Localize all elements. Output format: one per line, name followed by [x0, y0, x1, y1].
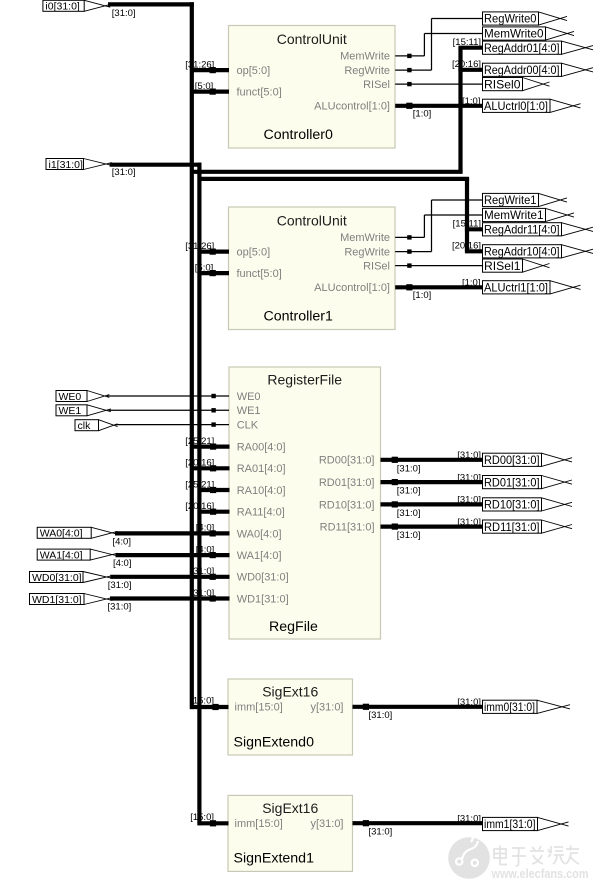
- svg-text:ALUcontrol[1:0]: ALUcontrol[1:0]: [314, 101, 390, 113]
- net label [31:0] WD1 at tag: [108, 602, 132, 613]
- svg-text:WD1[31:0]: WD1[31:0]: [237, 593, 289, 605]
- net label [4:0] WA0 at tag: [113, 536, 132, 547]
- output port ALUctrl1[1:0]: [483, 281, 581, 295]
- svg-text:ControlUnit: ControlUnit: [277, 213, 347, 229]
- svg-text:RegAddr10[4:0]: RegAddr10[4:0]: [484, 246, 560, 259]
- svg-text:SigExt16: SigExt16: [262, 800, 318, 816]
- output port RD01[31:0]: [483, 476, 573, 490]
- svg-text:RD11[31:0]: RD11[31:0]: [320, 522, 375, 534]
- svg-text:RISel0: RISel0: [484, 78, 521, 91]
- svg-text:imm[15:0]: imm[15:0]: [235, 818, 283, 830]
- net label [31:0] RD01 near tag: [457, 472, 481, 483]
- wire busA vertical: [458, 48, 462, 172]
- wire WE0 net: [107, 394, 229, 398]
- svg-text:MemWrite: MemWrite: [340, 232, 390, 244]
- svg-text:RISel: RISel: [363, 79, 390, 91]
- wire SignExtend1 imm tap from bus2: [198, 820, 229, 826]
- wire op tap Controller0 + junction: [190, 67, 229, 73]
- svg-text:CLK: CLK: [237, 420, 259, 432]
- svg-text:RegFile: RegFile: [269, 619, 318, 635]
- wire bus1 i0 vertical trunk: [190, 2, 194, 709]
- output port RegAddr01[4:0]: [483, 41, 594, 55]
- output port RD10[31:0]: [483, 498, 573, 512]
- output port RegWrite1: [483, 193, 568, 207]
- net label [5:0] funct tap Controller0: [195, 81, 214, 92]
- wire busB link from bus2: [198, 177, 470, 181]
- output port RegAddr00[4:0]: [483, 63, 594, 77]
- net label [31:0] RD00 near pin: [397, 463, 421, 474]
- svg-text:RegAddr01[4:0]: RegAddr01[4:0]: [484, 42, 560, 55]
- component U4 SigExt16 instance SignExtend0: [228, 679, 353, 755]
- svg-text:funct[5:0]: funct[5:0]: [237, 268, 282, 280]
- wire RegAddr00 tap: [458, 68, 482, 72]
- net label [31:0] at i1: [112, 167, 136, 178]
- wire SignExtend0 imm tap from bus1: [190, 704, 229, 710]
- input port WA1[4:0]: [37, 549, 118, 561]
- net label [15:0] SignExtend1 input: [190, 812, 214, 823]
- svg-text:RegWrite1: RegWrite1: [484, 194, 537, 207]
- input port WD1[31:0]: [30, 594, 113, 606]
- net label [31:0] WD0 at tag: [108, 580, 132, 591]
- svg-text:op[5:0]: op[5:0]: [237, 247, 271, 259]
- svg-text:RD10[31:0]: RD10[31:0]: [319, 499, 375, 511]
- svg-text:[31:0]: [31:0]: [369, 710, 393, 721]
- svg-text:[31:0]: [31:0]: [112, 8, 136, 19]
- input port WE1: [56, 405, 111, 417]
- svg-text:WD1[31:0]: WD1[31:0]: [32, 594, 82, 606]
- svg-text:ALUctrl1[1:0]: ALUctrl1[1:0]: [484, 282, 548, 295]
- svg-text:[31:0]: [31:0]: [397, 508, 421, 519]
- wire RegAddr11 tap: [465, 227, 483, 231]
- svg-text:RD00[31:0]: RD00[31:0]: [484, 454, 540, 467]
- decorative watermark (not labelled further): [448, 835, 588, 881]
- pin labels RegFile: [237, 391, 375, 606]
- svg-text:RA00[4:0]: RA00[4:0]: [237, 442, 286, 454]
- net label [31:0] RD00 near tag: [457, 450, 481, 461]
- svg-text:[31:0]: [31:0]: [397, 486, 421, 497]
- net label [31:0] WD0 at pin: [191, 566, 215, 577]
- net label [4:0] WA1 at tag: [113, 558, 132, 569]
- net label [31:0] imm1 near pin: [369, 826, 393, 837]
- wire RISel1 net: [395, 263, 482, 267]
- output port RegAddr11[4:0]: [483, 223, 594, 237]
- wire busA link from bus1: [190, 170, 463, 174]
- net label [1:0] ALUctrl0 near pin: [413, 109, 432, 120]
- wire op tap Controller1 + junction: [198, 249, 230, 255]
- wire funct tap Controller1 + junction: [198, 270, 230, 276]
- svg-text:MemWrite1: MemWrite1: [484, 209, 544, 222]
- svg-text:RA01[4:0]: RA01[4:0]: [237, 463, 286, 475]
- wire i0 bus horizontal from i0 tag: [108, 2, 194, 6]
- input port WD0[31:0]: [30, 572, 113, 584]
- net label [25:21] RA10 tap: [185, 479, 214, 490]
- svg-text:clk: clk: [78, 420, 92, 432]
- net label [31:0] at i0: [112, 8, 136, 19]
- net label [31:26] op tap Controller0: [185, 59, 214, 70]
- svg-text:RA11[4:0]: RA11[4:0]: [237, 507, 285, 519]
- wire funct tap Controller0 + junction: [190, 89, 229, 95]
- output port RD11[31:0]: [483, 520, 573, 534]
- net label [31:0] imm0 near pin: [369, 710, 393, 721]
- svg-text:[31:0]: [31:0]: [397, 530, 421, 541]
- svg-text:WA0[4:0]: WA0[4:0]: [40, 528, 83, 540]
- wire RD11 bus: [381, 524, 483, 530]
- wire RA11 tap: [198, 509, 230, 515]
- svg-text:y[31:0]: y[31:0]: [310, 818, 343, 830]
- svg-text:op[5:0]: op[5:0]: [237, 65, 271, 77]
- net label [20:16] RA01 tap: [185, 458, 214, 469]
- svg-text:RA10[4:0]: RA10[4:0]: [237, 485, 286, 497]
- svg-text:MemWrite0: MemWrite0: [484, 28, 544, 41]
- net label [15:11] RegAddr11 tap: [453, 219, 481, 230]
- net label [5:0] funct tap Controller1: [195, 262, 214, 273]
- svg-text:RISel: RISel: [363, 260, 390, 272]
- svg-text:RegWrite: RegWrite: [344, 65, 390, 77]
- svg-text:RegAddr11[4:0]: RegAddr11[4:0]: [484, 224, 560, 237]
- output port RISel1: [483, 259, 550, 273]
- net label [1:0] ALUctrl1 near tag: [462, 277, 481, 288]
- svg-text:WE0: WE0: [237, 391, 261, 403]
- net label [4:0] WA0 at pin: [196, 523, 215, 534]
- svg-text:WD0[31:0]: WD0[31:0]: [32, 572, 82, 584]
- wire WE1 net: [109, 408, 229, 412]
- svg-text:ControlUnit: ControlUnit: [277, 31, 347, 47]
- svg-text:RD10[31:0]: RD10[31:0]: [484, 499, 540, 512]
- net label [1:0] ALUctrl0 near tag: [462, 96, 481, 107]
- wire ALUctrl0 bus: [395, 103, 482, 109]
- output port RISel0: [483, 78, 550, 92]
- svg-text:RD01[31:0]: RD01[31:0]: [484, 476, 540, 489]
- svg-text:WA1[4:0]: WA1[4:0]: [237, 550, 282, 562]
- net label [31:0] RD11 near tag: [457, 517, 481, 528]
- wire ALUctrl1 bus: [395, 284, 482, 290]
- wire RegWrite0 net: [395, 19, 482, 73]
- input port WE0: [56, 391, 109, 403]
- wire busB vertical: [465, 179, 469, 251]
- svg-text:RD01[31:0]: RD01[31:0]: [319, 477, 375, 489]
- input port i1[31:0]: [46, 159, 112, 171]
- input port i0[31:0]: [43, 0, 110, 12]
- wire RegAddr10 tap: [465, 249, 483, 253]
- wire WA1 bus: [116, 552, 230, 558]
- wire MemWrite0 net: [395, 34, 482, 59]
- svg-text:funct[5:0]: funct[5:0]: [237, 87, 282, 99]
- net label [20:16] RA11 tap: [185, 501, 214, 512]
- svg-text:imm1[31:0]: imm1[31:0]: [484, 818, 536, 831]
- net label [31:0] RD10 near pin: [397, 508, 421, 519]
- wire WD1 bus: [110, 595, 230, 601]
- pin labels SignExtend1: [235, 818, 344, 830]
- svg-text:SignExtend1: SignExtend1: [234, 851, 315, 867]
- svg-text:ALUctrl0[1:0]: ALUctrl0[1:0]: [484, 100, 548, 113]
- wire imm0 output bus: [353, 704, 483, 710]
- output port ALUctrl0[1:0]: [483, 99, 581, 113]
- wire imm1 output bus: [353, 820, 484, 826]
- svg-text:WA1[4:0]: WA1[4:0]: [40, 549, 83, 561]
- net label [31:0] RD10 near tag: [457, 495, 481, 506]
- svg-text:SignExtend0: SignExtend0: [234, 734, 315, 750]
- component U5 SigExt16 instance SignExtend1: [228, 795, 353, 871]
- wire RegWrite1 net: [395, 200, 482, 254]
- svg-text:RD00[31:0]: RD00[31:0]: [319, 455, 375, 467]
- wire MemWrite1 net: [395, 215, 482, 240]
- net label [15:11] RegAddr01 tap: [453, 37, 481, 48]
- output port RegWrite0: [483, 12, 568, 26]
- svg-text:WE0: WE0: [59, 391, 82, 403]
- svg-text:RegWrite0: RegWrite0: [484, 13, 537, 26]
- svg-text:[31:0]: [31:0]: [397, 463, 421, 474]
- component U1 ControlUnit instance Controller0: [229, 26, 396, 149]
- svg-text:RegisterFile: RegisterFile: [267, 371, 342, 387]
- svg-text:[4:0]: [4:0]: [113, 536, 132, 547]
- net label [20:16] RegAddr00 tap: [452, 59, 481, 70]
- net label [20:16] RegAddr10 tap: [452, 241, 481, 252]
- svg-text:i0[31:0]: i0[31:0]: [45, 1, 80, 13]
- svg-text:WE1: WE1: [59, 405, 82, 417]
- net label [4:0] WA1 at pin: [196, 544, 215, 555]
- svg-text:i1[31:0]: i1[31:0]: [49, 159, 84, 171]
- component U2 ControlUnit instance Controller1: [229, 207, 396, 330]
- net label [15:0] SignExtend0 input: [190, 695, 214, 706]
- svg-text:[31:0]: [31:0]: [108, 580, 132, 591]
- wire i1 bus horizontal from i1 tag: [110, 163, 202, 167]
- svg-text:y[31:0]: y[31:0]: [310, 702, 343, 714]
- pin labels Controller1: [237, 232, 391, 294]
- wire RISel0 net: [395, 82, 482, 86]
- svg-text:[4:0]: [4:0]: [113, 558, 132, 569]
- svg-text:RegAddr00[4:0]: RegAddr00[4:0]: [484, 64, 560, 77]
- svg-text:WA0[4:0]: WA0[4:0]: [237, 528, 282, 540]
- output port MemWrite0: [483, 27, 575, 41]
- net label [1:0] ALUctrl1 near pin: [413, 290, 432, 301]
- output port RD00[31:0]: [483, 453, 573, 467]
- pin labels Controller0: [237, 51, 391, 113]
- output port imm0[31:0]: [483, 700, 571, 714]
- component U3 RegisterFile instance RegFile: [229, 367, 381, 639]
- input port clk: [75, 420, 118, 432]
- svg-text:SigExt16: SigExt16: [262, 684, 318, 700]
- input port WA0[4:0]: [37, 527, 117, 539]
- wire RD01 bus: [381, 479, 483, 485]
- output port MemWrite1: [483, 208, 575, 222]
- output port imm1[31:0]: [483, 817, 569, 831]
- svg-text:imm[15:0]: imm[15:0]: [235, 702, 283, 714]
- wire RA00 tap: [190, 444, 230, 450]
- svg-text:RegWrite: RegWrite: [344, 246, 390, 258]
- net label [25:21] RA00 tap: [185, 436, 214, 447]
- output port RegAddr10[4:0]: [483, 245, 594, 259]
- net label [31:0] imm1 near tag: [457, 813, 481, 824]
- net label [31:0] WD1 at pin: [191, 588, 215, 599]
- wire RA10 tap: [198, 487, 230, 493]
- svg-text:[1:0]: [1:0]: [413, 109, 432, 120]
- svg-text:[1:0]: [1:0]: [413, 290, 432, 301]
- svg-text:[31:0]: [31:0]: [108, 602, 132, 613]
- svg-text:ALUcontrol[1:0]: ALUcontrol[1:0]: [314, 282, 390, 294]
- wire bus2 i1 vertical trunk: [197, 163, 201, 826]
- svg-text:www.elecfans.com: www.elecfans.com: [491, 866, 589, 881]
- svg-text:RISel1: RISel1: [484, 260, 521, 273]
- wire RD00 bus: [381, 457, 483, 463]
- net label [31:0] RD11 near pin: [397, 530, 421, 541]
- svg-text:MemWrite: MemWrite: [340, 51, 390, 63]
- svg-text:Controller0: Controller0: [264, 127, 334, 143]
- net label [31:26] op tap Controller1: [185, 241, 214, 252]
- svg-text:WE1: WE1: [237, 405, 261, 417]
- svg-text:[31:0]: [31:0]: [369, 826, 393, 837]
- wire clk net: [115, 422, 229, 426]
- pin labels SignExtend0: [235, 702, 344, 714]
- svg-text:Controller1: Controller1: [264, 309, 334, 325]
- net label [31:0] imm0 near tag: [457, 697, 481, 708]
- wire RD10 bus: [381, 501, 483, 507]
- wire WD0 bus: [110, 574, 229, 580]
- svg-text:RD11[31:0]: RD11[31:0]: [484, 521, 540, 534]
- wire RegAddr01 tap: [458, 46, 482, 50]
- svg-text:[31:0]: [31:0]: [112, 167, 136, 178]
- net label [31:0] RD01 near pin: [397, 486, 421, 497]
- svg-text:WD0[31:0]: WD0[31:0]: [237, 572, 289, 584]
- svg-text:imm0[31:0]: imm0[31:0]: [484, 701, 535, 714]
- wire RA01 tap: [190, 465, 230, 471]
- wire WA0 bus: [115, 530, 230, 536]
